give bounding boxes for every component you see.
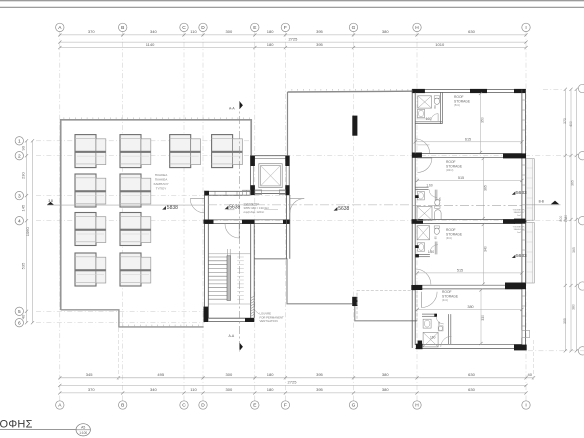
grid bubbles right edge — [578, 84, 584, 92]
svg-text:1010: 1010 — [435, 42, 445, 47]
svg-text:1: 1 — [18, 139, 21, 145]
wall stub on grid G — [352, 116, 357, 136]
svg-text:330: 330 — [481, 315, 485, 321]
svg-text:400: 400 — [569, 121, 573, 127]
room2 dim 515 — [417, 179, 522, 181]
svg-text:5633: 5633 — [516, 253, 527, 259]
stair bottom wall — [208, 317, 245, 319]
balcony upper — [526, 159, 534, 221]
svg-text:F: F — [284, 403, 287, 409]
right wing top wall — [412, 89, 526, 91]
louvre hatch in right wall — [251, 296, 255, 298]
svg-text:630: 630 — [468, 372, 475, 377]
svg-text:B: B — [121, 403, 124, 409]
svg-text:ΤΥΠΟΥ: ΤΥΠΟΥ — [156, 187, 167, 191]
wall level3 y221 — [415, 219, 522, 221]
vestibule right wall — [286, 195, 288, 259]
svg-text:160: 160 — [426, 117, 432, 121]
right wing left wall — [411, 90, 413, 349]
room4 door — [420, 292, 422, 308]
svg-text:300: 300 — [226, 387, 233, 392]
svg-text:C: C — [182, 25, 186, 31]
svg-text:90: 90 — [20, 145, 25, 150]
stair right wall — [250, 224, 252, 318]
parapet ticks top edge — [63, 117, 65, 119]
room4 sink — [423, 319, 431, 328]
svg-text:ΥΨΟΜΕΤΡΟ: ΥΨΟΜΕΤΡΟ — [244, 202, 260, 206]
roof unit r1c2 — [120, 135, 151, 168]
room1 shower — [418, 96, 432, 108]
dimension column left — [26, 141, 28, 323]
roof unit r1c3 — [170, 135, 201, 168]
svg-text:2: 2 — [18, 153, 21, 159]
svg-text:2725: 2725 — [288, 380, 298, 385]
grid bubbles top — [56, 23, 64, 31]
svg-text:5838: 5838 — [167, 205, 178, 211]
left block outline — [61, 120, 252, 310]
room4 lower door arc — [441, 336, 452, 347]
vent shaft — [243, 190, 251, 195]
room3 sink — [418, 243, 425, 251]
svg-text:2725: 2725 — [288, 36, 298, 41]
svg-text:1.60: 1.60 — [426, 184, 432, 188]
room4 dim 380 — [417, 308, 522, 310]
dimension row top 1 — [60, 34, 526, 36]
room3 wc — [434, 226, 439, 228]
stair left wall pocket — [204, 307, 209, 322]
svg-text:380: 380 — [382, 387, 389, 392]
vestibule top wall — [204, 191, 250, 195]
stair treads right flight — [237, 256, 244, 258]
svg-text:630: 630 — [468, 29, 475, 34]
svg-text:40: 40 — [20, 314, 25, 319]
svg-text:340: 340 — [150, 29, 157, 34]
svg-text:I: I — [525, 403, 526, 409]
room2 bath door — [429, 190, 437, 198]
svg-text:535: 535 — [20, 262, 25, 269]
roof unit r1c1 — [75, 135, 106, 168]
svg-text:395: 395 — [316, 387, 323, 392]
room1 dim 615 — [415, 141, 522, 143]
short dashed extension lines bottom — [118, 328, 120, 380]
svg-text:3: 3 — [18, 193, 21, 199]
svg-text:615: 615 — [465, 137, 471, 141]
svg-text:110: 110 — [190, 387, 197, 392]
border line top — [0, 0, 584, 2]
room4 wc — [438, 326, 443, 331]
svg-text:C: C — [182, 403, 186, 409]
section marker A-A bottom — [240, 343, 243, 351]
door vestibule to stair — [238, 224, 240, 238]
svg-text:80: 80 — [433, 105, 437, 109]
svg-text:395: 395 — [316, 42, 323, 47]
mid wall y221 — [204, 219, 290, 221]
section marker B-B — [551, 201, 559, 205]
svg-text:ΟΦΗΣ: ΟΦΗΣ — [0, 418, 33, 430]
svg-text:340: 340 — [484, 246, 488, 252]
elevator pocket corners — [251, 156, 255, 166]
roof unit r3c1 — [75, 213, 106, 246]
level 5633 upper — [512, 191, 516, 194]
balcony bottom strip — [522, 331, 530, 338]
svg-text:1060: 1060 — [25, 227, 30, 237]
svg-text:395: 395 — [316, 372, 323, 377]
svg-text:630: 630 — [468, 387, 475, 392]
svg-text:380: 380 — [572, 304, 576, 310]
room1 door — [414, 139, 416, 154]
svg-text:A-A: A-A — [229, 106, 235, 110]
grid lines vertical — [59, 32, 61, 402]
svg-text:370: 370 — [88, 29, 95, 34]
room4 shower — [423, 332, 438, 347]
svg-text:STORAGE: STORAGE — [446, 232, 463, 236]
svg-text:800: 800 — [559, 216, 563, 222]
elevator shaft walls — [250, 156, 289, 194]
svg-text:180: 180 — [267, 29, 274, 34]
wall level4 y287 — [415, 284, 522, 286]
benchmark triangle left — [47, 202, 54, 205]
room2 wc — [435, 206, 440, 208]
svg-text:(18m²): (18m²) — [446, 169, 454, 172]
svg-text:300: 300 — [226, 372, 233, 377]
svg-text:G: G — [352, 403, 356, 409]
svg-text:1:100: 1:100 — [79, 431, 87, 435]
stair treads left flight — [209, 256, 228, 258]
svg-text:5633: 5633 — [516, 190, 527, 196]
wall level2 y155 — [415, 153, 522, 155]
svg-text:5m²: 5m² — [517, 214, 521, 217]
svg-text:380: 380 — [467, 305, 473, 309]
svg-text:B: B — [121, 25, 124, 31]
dashed overhang rect — [357, 291, 417, 321]
level 5638 center — [225, 206, 229, 210]
svg-text:380: 380 — [382, 29, 389, 34]
svg-text:350: 350 — [480, 117, 484, 123]
svg-text:160: 160 — [430, 335, 436, 339]
room3 door — [414, 269, 416, 284]
level 5633 lower — [512, 255, 516, 258]
svg-text:1.50: 1.50 — [428, 250, 434, 254]
svg-text:340: 340 — [150, 387, 157, 392]
dimension total left — [32, 141, 34, 323]
svg-text:STORAGE: STORAGE — [442, 294, 459, 298]
svg-text:145: 145 — [20, 204, 25, 211]
section line A-A vertical — [239, 101, 241, 352]
stair top line — [209, 253, 251, 255]
room3 bath door — [430, 245, 438, 253]
room3 bathroom — [415, 253, 430, 255]
svg-text:συμβ.δομ. 122m²: συμβ.δομ. 122m² — [244, 210, 265, 214]
elevator cab — [259, 164, 282, 188]
svg-text:180: 180 — [267, 387, 274, 392]
svg-text:515: 515 — [458, 176, 464, 180]
level 5638 right — [334, 207, 338, 211]
svg-text:300: 300 — [226, 29, 233, 34]
roof unit r4c2 — [120, 253, 151, 286]
elevator door sill — [255, 190, 262, 195]
room2 sink — [417, 192, 424, 200]
svg-text:110: 110 — [190, 29, 197, 34]
terrace boundary lines — [255, 259, 353, 304]
svg-text:365: 365 — [571, 180, 575, 186]
room1 bathroom enclosure — [415, 121, 442, 123]
room1 door open leaf line — [416, 144, 429, 146]
room1 sink — [418, 109, 425, 117]
svg-text:ΧΑΜΗΛΟΥ: ΧΑΜΗΛΟΥ — [514, 211, 525, 214]
svg-text:ΧΑΜΗΛΟΥ: ΧΑΜΗΛΟΥ — [153, 182, 168, 186]
svg-text:D: D — [201, 25, 205, 31]
svg-text:ΧΑΜΗΛΟΥ: ΧΑΜΗΛΟΥ — [514, 228, 525, 231]
svg-text:495: 495 — [157, 372, 164, 377]
dimension row bottom 1 — [60, 377, 534, 379]
grid bubbles left — [15, 137, 23, 145]
svg-text:345: 345 — [86, 372, 93, 377]
stair left wall — [204, 191, 206, 322]
svg-text:STORAGE: STORAGE — [454, 99, 471, 103]
svg-text:3.8: 3.8 — [48, 199, 53, 203]
room4 bath door — [436, 316, 444, 324]
svg-text:85: 85 — [438, 197, 442, 201]
svg-text:4: 4 — [18, 218, 21, 224]
svg-text:5m²: 5m² — [517, 231, 521, 234]
grid bubbles bottom — [56, 401, 64, 409]
svg-text:5638: 5638 — [229, 204, 240, 210]
louvre note — [255, 310, 260, 314]
section line B-B / level line left — [47, 204, 204, 206]
svg-text:90: 90 — [437, 321, 441, 325]
svg-text:STORAGE: STORAGE — [446, 164, 463, 168]
right wing bottom wall — [415, 343, 522, 345]
dimension row top 2 (2725) — [60, 41, 526, 43]
svg-text:85: 85 — [433, 236, 437, 240]
stair landing line — [209, 303, 251, 305]
svg-text:370: 370 — [88, 387, 95, 392]
svg-text:ΠΛΑΚΕΑ: ΠΛΑΚΕΑ — [155, 178, 168, 182]
scale bubble — [76, 424, 90, 436]
svg-text:395: 395 — [316, 29, 323, 34]
parapet ticks lower edge — [122, 325, 124, 327]
svg-text:I: I — [525, 25, 526, 31]
svg-text:G: G — [352, 25, 356, 31]
wall jambs left wing wall — [415, 195, 418, 198]
room1 wc — [434, 96, 440, 99]
middle terrace top edge — [288, 90, 413, 93]
room4 bathroom — [422, 313, 437, 315]
svg-text:1140: 1140 — [146, 42, 155, 47]
svg-text:A-A: A-A — [229, 334, 235, 338]
svg-text:D: D — [201, 403, 205, 409]
room2 shower — [417, 206, 432, 220]
room2 shower arch — [434, 210, 441, 220]
svg-text:373: 373 — [563, 118, 567, 124]
svg-text:5: 5 — [18, 309, 21, 315]
room1 bath door — [431, 114, 438, 121]
roof unit r2c2 — [120, 174, 151, 207]
svg-text:(9m²): (9m²) — [446, 237, 452, 240]
svg-text:365: 365 — [484, 185, 488, 191]
svg-text:3355² 3Δ5 = 133.3m²: 3355² 3Δ5 = 133.3m² — [244, 206, 269, 210]
svg-text:H: H — [415, 25, 419, 31]
svg-text:VENTILATION: VENTILATION — [260, 319, 278, 323]
dimension row bottom 2 (2725) — [60, 384, 526, 386]
dimension row top 3 — [60, 47, 526, 49]
svg-text:355: 355 — [563, 318, 567, 324]
svg-text:380: 380 — [382, 372, 389, 377]
door left of vestibule — [190, 198, 204, 200]
stair center rail — [227, 256, 231, 301]
level 5838 — [162, 206, 166, 210]
svg-text:(5m²): (5m²) — [454, 104, 460, 107]
svg-text:F: F — [284, 25, 287, 31]
roof unit r1c4 — [212, 135, 243, 168]
svg-text:180: 180 — [267, 42, 274, 47]
dimension row bottom 3 — [60, 392, 526, 394]
roof unit r3c2 — [120, 213, 151, 246]
right wing right wall — [521, 90, 523, 349]
svg-text:6: 6 — [18, 320, 21, 326]
svg-text:40: 40 — [528, 372, 533, 377]
room1 dim 160 — [417, 118, 428, 120]
svg-text:515: 515 — [457, 268, 463, 272]
svg-text:E: E — [253, 403, 256, 409]
svg-text:1030: 1030 — [564, 215, 568, 223]
room3 dim 515 — [417, 272, 522, 274]
svg-text:5638: 5638 — [338, 206, 349, 212]
svg-text:A5: A5 — [81, 426, 85, 430]
room3 shower — [417, 226, 429, 240]
section marker A-A top — [240, 101, 243, 109]
grid lines horizontal — [36, 140, 252, 142]
svg-text:180: 180 — [267, 372, 274, 377]
window ticks right wall — [522, 99, 526, 101]
svg-text:(4m²): (4m²) — [442, 299, 448, 302]
stair rail upper extension — [226, 249, 228, 256]
door right of vestibule — [290, 198, 304, 200]
balcony lower — [526, 223, 534, 284]
svg-text:H: H — [415, 403, 419, 409]
svg-text:B-B: B-B — [539, 200, 544, 204]
roof unit r2c1 — [75, 174, 106, 207]
svg-text:E: E — [253, 25, 256, 31]
roof unit r4c1 — [75, 253, 106, 286]
svg-text:365: 365 — [572, 247, 576, 253]
svg-text:ΠΛΑΚΕΑ: ΠΛΑΚΕΑ — [155, 173, 168, 177]
room2 bathroom — [415, 186, 428, 188]
svg-text:230: 230 — [20, 172, 25, 179]
dimension column right — [564, 89, 566, 351]
